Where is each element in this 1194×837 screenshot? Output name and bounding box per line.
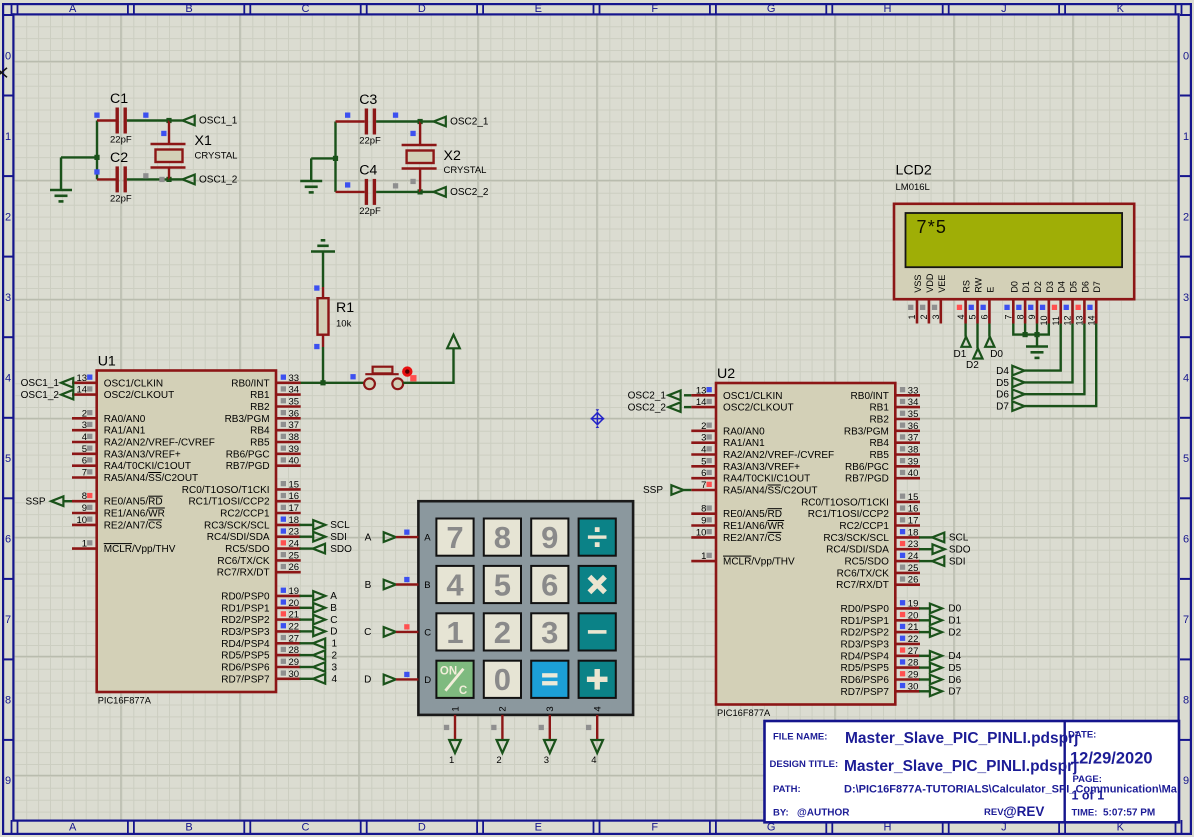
svg-text:8: 8 <box>1183 695 1189 707</box>
U1 pin 23 RC4/SDI/SDA <box>276 535 301 538</box>
svg-text:RB2: RB2 <box>869 415 889 426</box>
terminal 3 at U1 <box>300 666 314 668</box>
terminal 4 at keypad <box>596 715 598 740</box>
svg-text:9: 9 <box>1027 314 1037 319</box>
terminal D2 at U2 <box>919 631 930 633</box>
svg-text:RA2/AN2/VREF-/CVREF: RA2/AN2/VREF-/CVREF <box>104 438 215 449</box>
U1 pin 2 RA0/AN0 <box>72 417 97 420</box>
svg-text:VEE: VEE <box>937 275 947 293</box>
svg-text:VDD: VDD <box>925 273 935 293</box>
svg-text:3: 3 <box>5 292 11 304</box>
resistor R1 <box>322 287 324 298</box>
svg-text:28: 28 <box>908 658 919 669</box>
U2 pin 2 RA0/AN0 <box>691 429 716 432</box>
svg-text:RB3/PGM: RB3/PGM <box>844 426 889 437</box>
svg-text:BY:: BY: <box>773 807 789 818</box>
svg-text:DESIGN TITLE:: DESIGN TITLE: <box>770 759 839 770</box>
svg-text:RB1: RB1 <box>250 390 270 401</box>
wire <box>976 324 978 349</box>
svg-text:4: 4 <box>591 755 596 766</box>
svg-text:RD5/PSP5: RD5/PSP5 <box>841 663 890 674</box>
svg-text:SDI: SDI <box>949 556 966 567</box>
keypad body <box>418 501 633 715</box>
svg-text:RC1/T1OSI/CCP2: RC1/T1OSI/CCP2 <box>188 497 270 508</box>
wire <box>60 157 62 190</box>
svg-text:29: 29 <box>908 670 919 681</box>
terminal SCL at U1 <box>300 524 313 526</box>
svg-text:38: 38 <box>908 445 919 456</box>
svg-text:RA4/T0CKI/C1OUT: RA4/T0CKI/C1OUT <box>104 461 191 472</box>
terminal 2 at U1 <box>300 654 314 656</box>
keypad button op <box>579 519 616 556</box>
terminal OSC2_1 at U2 <box>684 394 691 396</box>
svg-text:D3: D3 <box>1045 281 1055 293</box>
keypad button 6 <box>531 566 568 603</box>
U2 pin 4 RA2/AN2/VREF-/CVREF <box>691 453 716 456</box>
svg-text:RC6/TX/CK: RC6/TX/CK <box>217 556 270 567</box>
svg-text:4: 4 <box>82 432 87 443</box>
svg-text:X1: X1 <box>195 133 212 149</box>
wire <box>403 348 453 383</box>
svg-text:8: 8 <box>5 695 11 707</box>
svg-text:D5: D5 <box>1069 281 1079 293</box>
svg-text:C2: C2 <box>110 150 128 166</box>
svg-text:C1: C1 <box>110 91 128 107</box>
terminal SCL at U2 <box>919 536 932 538</box>
svg-text:F: F <box>651 3 658 15</box>
svg-text:RA0/AN0: RA0/AN0 <box>723 426 765 437</box>
keypad button = <box>531 661 568 698</box>
svg-text:27: 27 <box>289 633 300 644</box>
title block divider <box>1064 721 1066 822</box>
svg-text:C: C <box>302 3 310 15</box>
U1 pin 20 RD1/PSP1 <box>276 606 301 609</box>
keypad button op <box>579 661 616 698</box>
U1 pin 13 OSC1/CLKIN <box>72 381 97 384</box>
svg-text:D: D <box>364 675 371 686</box>
keypad button 7 <box>436 519 473 556</box>
svg-text:36: 36 <box>289 408 300 419</box>
wire <box>1025 324 1085 395</box>
terminal OSC1_2 <box>169 178 183 180</box>
svg-text:9: 9 <box>82 503 87 514</box>
svg-text:D6: D6 <box>1080 281 1090 293</box>
svg-text:TIME:: TIME: <box>1072 807 1098 818</box>
terminal D5 at U2 <box>919 666 930 668</box>
svg-text:21: 21 <box>908 622 919 633</box>
svg-text:D2: D2 <box>1033 281 1043 293</box>
svg-text:D1: D1 <box>1021 281 1031 293</box>
U1 pin 5 RA3/AN3/VREF+ <box>72 452 97 455</box>
svg-text:PIC16F877A: PIC16F877A <box>717 708 771 718</box>
U1 pin 7 RA5/AN4/SS/C2OUT <box>72 476 97 479</box>
svg-text:C: C <box>364 627 371 638</box>
svg-text:RD0/PSP0: RD0/PSP0 <box>221 591 270 602</box>
svg-text:D7: D7 <box>1092 281 1102 293</box>
U2 pin 10 RE2/AN7/CS <box>691 536 716 539</box>
svg-text:D0: D0 <box>990 349 1003 360</box>
keypad button 0 <box>484 661 521 698</box>
svg-text:8: 8 <box>1015 314 1025 319</box>
svg-text:33: 33 <box>908 385 919 396</box>
U2 pin 27 RD4/PSP4 <box>895 654 920 657</box>
keypad button ON/C <box>436 661 473 698</box>
svg-text:A: A <box>365 532 372 543</box>
U1 pin 26 RC7/RX/DT <box>276 571 301 574</box>
svg-text:RD1/PSP1: RD1/PSP1 <box>841 616 890 627</box>
svg-text:RA0/AN0: RA0/AN0 <box>104 414 146 425</box>
wire <box>300 382 365 384</box>
svg-text:PAGE:: PAGE: <box>1073 774 1102 785</box>
svg-text:26: 26 <box>289 562 300 573</box>
svg-text:D: D <box>330 627 337 638</box>
terminal 2 at keypad <box>501 715 503 740</box>
svg-text:22pF: 22pF <box>359 136 381 147</box>
op-amp U2 body <box>716 383 895 705</box>
U1 pin 18 RC3/SCK/SCL <box>276 524 301 527</box>
keypad button 3 <box>531 613 568 650</box>
svg-text:13: 13 <box>77 373 88 384</box>
svg-text:OSC1/CLKIN: OSC1/CLKIN <box>723 391 782 402</box>
svg-text:RB2: RB2 <box>250 402 270 413</box>
svg-text:D7: D7 <box>948 687 961 698</box>
U1 pin 19 RD0/PSP0 <box>276 595 301 598</box>
svg-text:3: 3 <box>544 755 549 766</box>
terminal D6 at U2 <box>919 678 930 680</box>
svg-text:D5: D5 <box>996 378 1009 389</box>
node <box>1023 332 1028 337</box>
svg-text:22: 22 <box>289 621 300 632</box>
svg-text:40: 40 <box>908 468 919 479</box>
svg-text:37: 37 <box>908 433 919 444</box>
svg-text:0: 0 <box>494 662 511 697</box>
wire <box>334 122 336 192</box>
svg-text:D1: D1 <box>948 616 961 627</box>
terminal 1 at U1 <box>300 642 314 644</box>
svg-text:RD7/PSP7: RD7/PSP7 <box>221 674 270 685</box>
U1 pin 1 MCLR/Vpp/THV <box>72 547 97 550</box>
U2 pin 17 RC2/CCP1 <box>895 524 920 527</box>
svg-text:@REV: @REV <box>1004 804 1045 819</box>
svg-text:RB5: RB5 <box>869 450 889 461</box>
svg-text:6: 6 <box>541 567 558 602</box>
wire <box>988 324 990 337</box>
svg-text:1: 1 <box>5 131 11 143</box>
svg-text:30: 30 <box>289 669 300 680</box>
svg-text:1: 1 <box>332 639 338 650</box>
svg-text:G: G <box>767 3 776 15</box>
wire <box>1025 324 1097 407</box>
svg-text:D2: D2 <box>966 360 979 371</box>
svg-text:PIC16F877A: PIC16F877A <box>98 696 152 706</box>
terminal D1 at LCD <box>961 337 970 347</box>
svg-text:R1: R1 <box>336 300 354 316</box>
svg-text:5: 5 <box>968 314 978 319</box>
U1 pin 3 RA1/AN1 <box>72 429 97 432</box>
svg-text:RA1/AN1: RA1/AN1 <box>104 426 146 437</box>
svg-text:D4: D4 <box>996 366 1009 377</box>
svg-text:C3: C3 <box>359 92 377 108</box>
keypad button op <box>579 613 616 650</box>
svg-text:SDI: SDI <box>330 532 347 543</box>
svg-text:RC3/SCK/SCL: RC3/SCK/SCL <box>204 520 270 531</box>
svg-text:9: 9 <box>1183 775 1189 787</box>
svg-text:A: A <box>69 3 77 15</box>
terminal 1 at keypad <box>454 715 456 740</box>
svg-text:2: 2 <box>701 421 706 432</box>
keypad button 2 <box>484 613 521 650</box>
U1 pin 27 RD4/PSP4 <box>276 642 301 645</box>
svg-text:5:07:57 PM: 5:07:57 PM <box>1103 807 1155 818</box>
svg-text:2: 2 <box>5 211 11 223</box>
svg-text:X2: X2 <box>444 148 461 164</box>
svg-text:8: 8 <box>494 520 511 555</box>
svg-text:RB5: RB5 <box>250 438 270 449</box>
svg-text:RC5/SDO: RC5/SDO <box>225 544 270 555</box>
svg-text:6: 6 <box>82 456 87 467</box>
terminal OSC1_1 <box>169 119 183 121</box>
svg-text:RC4/SDI/SDA: RC4/SDI/SDA <box>207 532 270 543</box>
U2 pin 13 OSC1/CLKIN <box>691 394 716 397</box>
svg-text:RA4/T0CKI/C1OUT: RA4/T0CKI/C1OUT <box>723 474 810 485</box>
svg-text:OSC1/CLKIN: OSC1/CLKIN <box>104 378 163 389</box>
svg-text:3: 3 <box>931 314 941 319</box>
svg-text:20: 20 <box>289 598 300 609</box>
U1 pin 17 RC2/CCP1 <box>276 512 301 515</box>
svg-text:18: 18 <box>908 527 919 538</box>
U2 pin 3 RA1/AN1 <box>691 441 716 444</box>
svg-text:RC1/T1OSI/CCP2: RC1/T1OSI/CCP2 <box>808 509 890 520</box>
U2 pin 15 RC0/T1OSO/T1CKI <box>895 501 920 504</box>
svg-text:2: 2 <box>494 615 511 650</box>
svg-text:4: 4 <box>956 314 966 319</box>
svg-text:22pF: 22pF <box>110 193 132 204</box>
svg-text:RB0/INT: RB0/INT <box>231 378 269 389</box>
svg-text:B: B <box>424 580 430 591</box>
svg-text:D: D <box>418 3 426 15</box>
origin cross marker <box>0 68 7 78</box>
svg-text:RA3/AN3/VREF+: RA3/AN3/VREF+ <box>104 449 181 460</box>
wire <box>1036 335 1038 347</box>
svg-text:35: 35 <box>289 397 300 408</box>
oscillator block 1 <box>0 0 1 1</box>
terminal SDO at U2 <box>919 548 932 550</box>
svg-text:13: 13 <box>696 385 707 396</box>
svg-text:SSP: SSP <box>25 496 45 507</box>
U2 pin 7 RA5/AN4/SS/C2OUT <box>691 489 716 492</box>
U1 pin 22 RD3/PSP3 <box>276 630 301 633</box>
svg-text:CRYSTAL: CRYSTAL <box>195 151 238 162</box>
U1 pin 25 RC6/TX/CK <box>276 559 301 562</box>
svg-text:B: B <box>185 3 192 15</box>
terminal D4 at U2 <box>919 655 930 657</box>
svg-text:D2: D2 <box>948 627 961 638</box>
svg-text:Master_Slave_PIC_PINLI.pdsprj: Master_Slave_PIC_PINLI.pdsprj <box>844 758 1077 775</box>
svg-text:3: 3 <box>701 433 706 444</box>
svg-text:2: 2 <box>1183 211 1189 223</box>
U1 pin 34 RB1 <box>276 393 301 396</box>
svg-text:3: 3 <box>332 662 338 673</box>
svg-text:17: 17 <box>289 503 300 514</box>
terminal D4 at LCD <box>1012 366 1024 376</box>
terminal OSC2_1 <box>420 120 434 122</box>
svg-text:27: 27 <box>908 646 919 657</box>
svg-text:RE2/AN7/CS: RE2/AN7/CS <box>104 520 163 531</box>
node <box>320 380 325 385</box>
svg-text:4: 4 <box>701 445 706 456</box>
svg-text:E: E <box>985 287 995 293</box>
terminal 4 at U1 <box>300 678 314 680</box>
svg-text:RD3/PSP3: RD3/PSP3 <box>841 639 890 650</box>
svg-text:@AUTHOR: @AUTHOR <box>797 807 850 818</box>
handle squares <box>94 113 99 118</box>
terminal A at U1 <box>300 595 313 597</box>
keypad button 9 <box>531 519 568 556</box>
svg-text:5: 5 <box>5 453 11 465</box>
svg-text:28: 28 <box>289 645 300 656</box>
svg-text:MCLR/Vpp/THV: MCLR/Vpp/THV <box>723 557 795 568</box>
wire <box>964 324 966 337</box>
svg-text:RC3/SCK/SCL: RC3/SCK/SCL <box>823 533 889 544</box>
terminal B at U1 <box>300 607 313 609</box>
svg-text:6: 6 <box>980 314 990 319</box>
U1 pin 39 RB6/PGC <box>276 452 301 455</box>
svg-text:19: 19 <box>289 586 300 597</box>
svg-text:SSP: SSP <box>643 485 663 496</box>
svg-text:22: 22 <box>908 634 919 645</box>
svg-text:38: 38 <box>289 432 300 443</box>
terminal D0 at U2 <box>919 607 930 609</box>
svg-text:6: 6 <box>1183 534 1189 546</box>
svg-text:RA1/AN1: RA1/AN1 <box>723 438 765 449</box>
svg-text:FILE NAME:: FILE NAME: <box>773 732 827 743</box>
svg-text:RC2/CCP1: RC2/CCP1 <box>220 509 270 520</box>
svg-text:OSC2/CLKOUT: OSC2/CLKOUT <box>104 390 175 401</box>
svg-text:24: 24 <box>289 539 300 550</box>
U1 pin 30 RD7/PSP7 <box>276 677 301 680</box>
terminal D6 at LCD <box>1012 389 1024 399</box>
svg-text:2: 2 <box>82 408 87 419</box>
U1 pin 21 RD2/PSP2 <box>276 618 301 621</box>
U2 pin 8 RE0/AN5/RD <box>691 512 716 515</box>
svg-text:J: J <box>1001 3 1007 15</box>
svg-text:E: E <box>535 822 542 834</box>
svg-text:VSS: VSS <box>913 275 923 293</box>
svg-text:D6: D6 <box>948 675 961 686</box>
svg-text:SCL: SCL <box>330 520 350 531</box>
wire <box>322 347 324 383</box>
wire <box>1025 324 1061 371</box>
svg-text:7: 7 <box>82 468 87 479</box>
svg-text:U2: U2 <box>717 366 735 382</box>
origin marker crosshair <box>591 413 603 425</box>
wire <box>1013 324 1049 335</box>
svg-text:24: 24 <box>908 551 919 562</box>
svg-text:4: 4 <box>1183 373 1189 385</box>
svg-text:1: 1 <box>450 706 461 711</box>
keypad button 8 <box>484 519 521 556</box>
svg-text:RB3/PGM: RB3/PGM <box>225 414 270 425</box>
svg-text:15: 15 <box>908 492 919 503</box>
U1 pin 24 RC5/SDO <box>276 547 301 550</box>
svg-text:16: 16 <box>289 491 300 502</box>
svg-text:3: 3 <box>545 706 556 711</box>
svg-text:C: C <box>302 822 310 834</box>
svg-text:CRYSTAL: CRYSTAL <box>444 165 487 176</box>
svg-text:Master_Slave_PIC_PINLI.pdsprj: Master_Slave_PIC_PINLI.pdsprj <box>845 730 1078 747</box>
U2 pin 23 RC4/SDI/SDA <box>895 548 920 551</box>
svg-text:D:\PIC16F877A-TUTORIALS\Calcul: D:\PIC16F877A-TUTORIALS\Calculator_SPI_C… <box>844 784 1178 796</box>
wire <box>1036 324 1038 335</box>
svg-text:9: 9 <box>5 775 11 787</box>
terminal SSP at U1 <box>64 500 72 502</box>
U2 pin 35 RB2 <box>895 418 920 421</box>
svg-text:RE0/AN5/RD: RE0/AN5/RD <box>104 497 163 508</box>
svg-text:36: 36 <box>908 421 919 432</box>
svg-text:4: 4 <box>5 373 11 385</box>
svg-text:B: B <box>365 580 372 591</box>
svg-text:1: 1 <box>446 615 463 650</box>
svg-text:5: 5 <box>701 456 706 467</box>
svg-text:6: 6 <box>5 534 11 546</box>
op-amp U1 body <box>97 371 276 693</box>
svg-text:25: 25 <box>289 550 300 561</box>
ground <box>300 180 322 183</box>
svg-text:RA5/AN4/SS/C2OUT: RA5/AN4/SS/C2OUT <box>104 473 198 484</box>
svg-text:DATE:: DATE: <box>1068 730 1096 741</box>
svg-text:37: 37 <box>289 420 300 431</box>
svg-text:5: 5 <box>494 567 511 602</box>
U2 pin 9 RE1/AN6/WR <box>691 524 716 527</box>
svg-text:RC0/T1OSO/T1CKI: RC0/T1OSO/T1CKI <box>801 497 889 508</box>
svg-text:RB6/PGC: RB6/PGC <box>226 449 270 460</box>
svg-text:OSC2_2: OSC2_2 <box>450 187 489 198</box>
U2 pin 6 RA4/T0CKI/C1OUT <box>691 477 716 480</box>
terminal SDO at U1 <box>300 547 313 549</box>
U1 pin 29 RD6/PSP6 <box>276 666 301 669</box>
svg-text:RD5/PSP5: RD5/PSP5 <box>221 651 270 662</box>
U2 pin 22 RD3/PSP3 <box>895 643 920 646</box>
svg-text:B: B <box>330 603 337 614</box>
svg-text:39: 39 <box>289 444 300 455</box>
svg-text:2: 2 <box>496 755 501 766</box>
U2 pin 16 RC1/T1OSI/CCP2 <box>895 512 920 515</box>
svg-text:U1: U1 <box>98 354 116 370</box>
svg-text:RB0/INT: RB0/INT <box>851 391 889 402</box>
ground <box>50 189 72 192</box>
svg-text:1 of 1: 1 of 1 <box>1072 789 1105 803</box>
wire <box>1024 324 1026 335</box>
svg-text:9: 9 <box>541 520 558 555</box>
terminal D7 at LCD <box>1012 401 1024 411</box>
svg-text:7: 7 <box>5 614 11 626</box>
svg-text:RA3/AN3/VREF+: RA3/AN3/VREF+ <box>723 462 800 473</box>
svg-text:RC7/RX/DT: RC7/RX/DT <box>836 580 889 591</box>
svg-text:RC5/SDO: RC5/SDO <box>844 557 889 568</box>
svg-text:RE1/AN6/WR: RE1/AN6/WR <box>104 509 165 520</box>
svg-text:3: 3 <box>541 615 558 650</box>
svg-text:D1: D1 <box>954 349 967 360</box>
U2 pin 24 RC5/SDO <box>895 560 920 563</box>
svg-text:RE2/AN7/CS: RE2/AN7/CS <box>723 533 782 544</box>
svg-text:RB4: RB4 <box>250 426 270 437</box>
U2 pin 39 RB6/PGC <box>895 465 920 468</box>
svg-text:14: 14 <box>77 385 88 396</box>
svg-text:23: 23 <box>908 539 919 550</box>
svg-text:B: B <box>185 822 192 834</box>
svg-text:A: A <box>330 591 337 602</box>
U1 pin 40 RB7/PGD <box>276 464 301 467</box>
